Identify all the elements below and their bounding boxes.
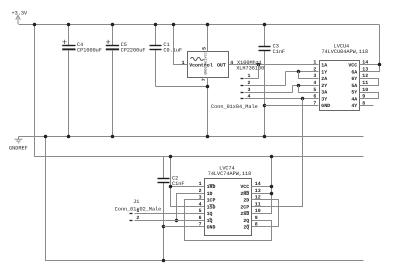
svg-text:6Y: 6Y [351,76,357,82]
svg-text:11: 11 [255,201,261,207]
wire GND drop to bottom rail [46,137,364,261]
wire 6A pin13 tie [360,65,380,72]
wire conn pin1 riser [258,65,260,79]
IC U? pin names right [240,184,249,231]
node junction 1Y [297,70,301,74]
wire 2Y riser to conn3 [292,86,294,93]
node junction 3Y [301,97,305,101]
wire 4Y stub [360,105,374,107]
IC U? pin names left [321,63,330,110]
wire conn pin1 [245,78,259,80]
svg-text:C0.1uF: C0.1uF [163,48,182,54]
node junction 2Y [297,84,301,88]
capacitor C3 [259,23,286,139]
svg-text:1Q: 1Q [207,218,213,224]
svg-text:Vcontrol: Vcontrol [189,63,213,69]
wire GND rail [19,136,364,138]
wire pin14 row [252,186,272,188]
svg-text:VCC: VCC [348,63,357,69]
node junction rail x=34.5 [33,23,37,27]
svg-text:J1: J1 [133,199,139,205]
power symbol +3.3V [12,11,28,24]
svg-text:74LVC74APW,118: 74LVC74APW,118 [208,171,252,177]
wire conn pin4 3Y row [245,98,319,100]
svg-text:6: 6 [199,215,202,221]
node junction rail x=207.4 [206,23,210,27]
svg-text:C1nF: C1nF [273,49,285,55]
node junction 1D/1Q- [175,219,179,223]
IC U? 74LVCU04 body [320,43,369,110]
svg-text:10: 10 [362,87,368,93]
svg-text:5: 5 [199,208,202,214]
capacitor C4 [62,23,102,139]
wire 2Y row [293,85,319,87]
IC U? pin names left [207,184,216,231]
svg-text:2SD: 2SD [240,211,249,217]
svg-text:4Y: 4Y [351,103,357,109]
svg-text:74LVCU04APW,118: 74LVCU04APW,118 [321,49,368,55]
wire J1 pin1 to 1Q [135,213,205,215]
svg-text:2Y: 2Y [321,83,327,89]
wire J1 pin2 to 1Q- row [135,220,205,222]
svg-text:GND: GND [321,103,330,109]
svg-text:GND(DNC)VCC: GND(DNC)VCC [203,52,208,74]
wire LVC74 GND row [164,226,205,228]
node junction osc gnd [206,85,210,89]
svg-text:Conn_01x02_Male: Conn_01x02_Male [115,206,162,212]
svg-text:4A: 4A [351,97,357,103]
connector J1 [115,199,162,221]
oscillator X1 labels [236,60,264,72]
wire OUT to 1A [229,64,319,66]
node junction feed x=271.6 [270,155,274,159]
wire 1D feedback [177,194,205,221]
IC U? pin numbers right [255,181,261,228]
IC U? pin numbers left [313,60,316,107]
svg-text:OUT: OUT [217,63,226,69]
svg-text:2Q: 2Q [243,225,249,231]
connector Conn_01x04_Male [211,73,258,110]
svg-text:1: 1 [182,60,185,66]
oscillator X1 body [182,47,234,81]
svg-text:6A: 6A [351,69,357,75]
svg-text:3Y: 3Y [321,97,327,103]
svg-text:1Q: 1Q [207,211,213,217]
svg-text:5Y: 5Y [351,90,357,96]
svg-text:+3.3V: +3.3V [12,11,28,17]
svg-text:VCC: VCC [240,184,249,190]
svg-text:1D: 1D [207,191,213,197]
svg-text:5: 5 [313,87,316,93]
wire oscillator GND pin 7 [207,78,209,137]
svg-text:2: 2 [313,67,316,73]
svg-text:CP2200uF: CP2200uF [121,48,146,54]
wire conn pin2 to 1Y net [245,85,286,87]
svg-text:2: 2 [199,188,202,194]
svg-text:5A: 5A [351,83,357,89]
ground GNDREF [9,137,28,152]
svg-text:1: 1 [313,60,316,66]
wire oscillator VCC pin 5 [207,25,209,52]
svg-text:GND: GND [207,225,216,231]
node junction gnd rail x=207.4 [206,135,210,139]
svg-text:1: 1 [199,181,202,187]
wire C1 bottom to oscillator GND [156,86,208,88]
IC U? 74LVC74 body [205,166,252,236]
svg-text:2A: 2A [321,76,327,82]
wire 1Y riser to conn2 [285,72,287,86]
svg-text:3A: 3A [321,90,327,96]
wire 2Y to 3A jog [299,86,319,93]
wire 2D to 2Q- loop [252,200,279,227]
svg-text:6: 6 [313,94,316,100]
capacitor C1 [150,23,183,87]
IC U? pin numbers left [199,181,202,228]
svg-text:4: 4 [313,80,316,86]
wire 5Y to 4A loop [360,93,379,99]
svg-text:5: 5 [202,47,208,50]
wire 1Y row [286,71,319,73]
wire VCC pin14 lvc74 [252,157,272,214]
svg-text:1A: 1A [321,63,327,69]
wire VCC pin14 [360,64,380,66]
node junction gnd rail x=45.5 [44,135,48,139]
svg-text:7: 7 [199,222,202,228]
capacitor C5 [106,23,146,139]
svg-text:3: 3 [313,73,316,79]
svg-text:4: 4 [199,201,202,207]
svg-text:1SD: 1SD [207,204,216,210]
IC U? pin names right [348,63,357,110]
wire pin13 row [252,193,272,195]
capacitor C2 [158,157,185,263]
svg-text:3: 3 [199,195,202,201]
wire LVCU4 GND row [265,105,319,107]
svg-text:2D: 2D [243,198,249,204]
svg-text:2CP: 2CP [240,204,249,210]
svg-text:1RD: 1RD [207,184,216,190]
IC U? pin numbers right [362,60,368,107]
svg-text:CP1000uF: CP1000uF [77,48,102,54]
node junction pin14 [270,185,274,189]
svg-text:XLH736100: XLH736100 [236,65,264,71]
svg-text:GNDREF: GNDREF [9,145,28,151]
svg-text:3: 3 [248,87,251,93]
wire 3Y drop to 2CP [252,99,303,207]
svg-text:Conn_01x04_Male: Conn_01x04_Male [211,104,258,110]
svg-text:7: 7 [201,78,207,81]
svg-text:1Y: 1Y [321,69,327,75]
node junction OUT tap [257,63,261,67]
svg-text:1CP: 1CP [207,198,216,204]
wire +3.3V feed drop at x=34.5 [35,25,364,157]
svg-text:2RD: 2RD [240,191,249,197]
wire conn pin3 to 2Y net [245,92,293,94]
node junction pin13 [270,192,274,196]
svg-text:2Q: 2Q [243,218,249,224]
node junction rail x=173.8 [172,23,176,27]
wire +3.3V top rail [19,24,380,26]
wire 1CP link [185,200,272,241]
svg-text:7: 7 [313,100,316,106]
wire Vcontrol feed [174,25,188,65]
wire 6Y to 5A loop [360,79,379,86]
wire 1RD 1SD tie high [171,157,205,207]
svg-text:9: 9 [255,215,258,221]
node junction 1RD [169,185,173,189]
node junction feed x=170.5 [169,155,173,159]
wire 1Y to 2A jog [299,72,319,79]
node junction vcc corner [378,63,382,67]
wire 1RD row [171,186,205,188]
